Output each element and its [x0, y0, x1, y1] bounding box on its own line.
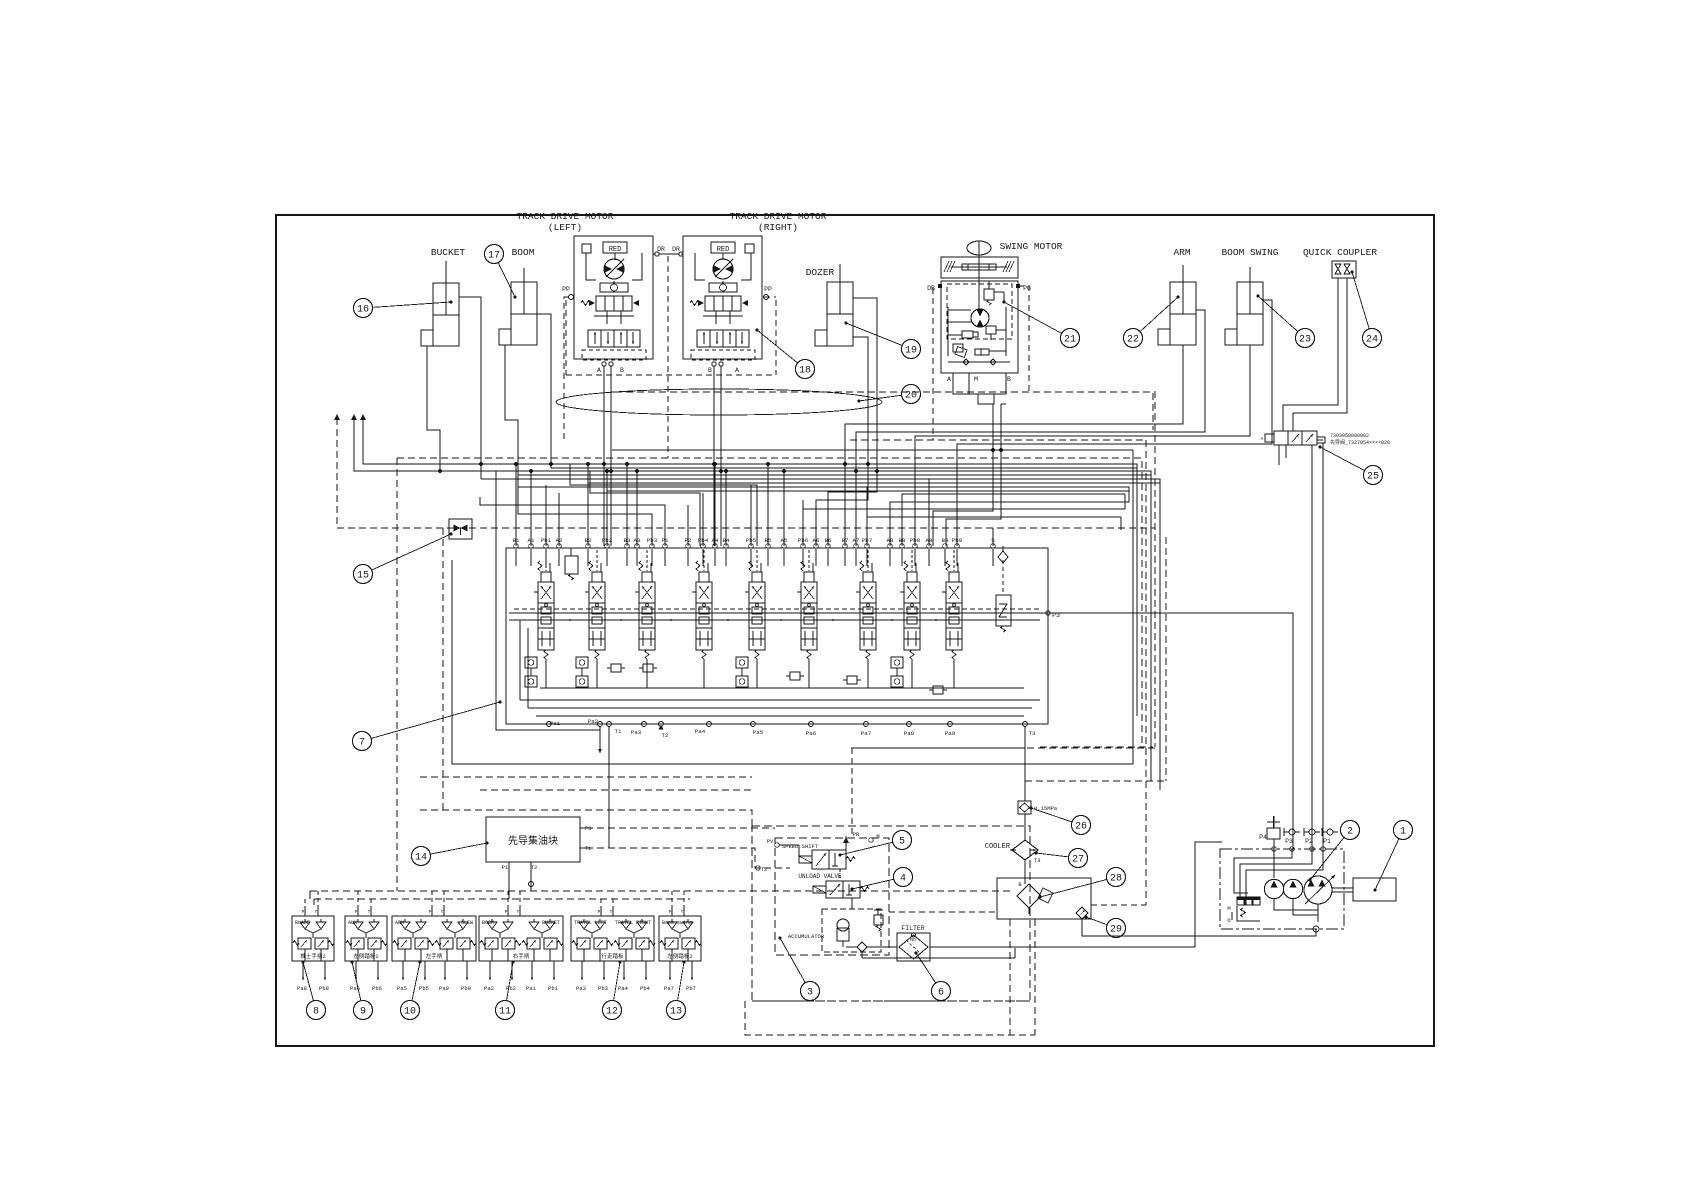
valve gallery 620	[509, 619, 1040, 621]
drawing border frame	[276, 215, 1434, 1046]
valve 25 part number	[1330, 433, 1390, 446]
pilot valve aux (9)	[345, 908, 387, 961]
pump 2 circle	[1283, 879, 1302, 898]
pump spring tank	[1227, 905, 1260, 924]
dashed box accumulator	[822, 909, 881, 952]
wire dashed right rect 1155	[1154, 391, 1156, 747]
svg-text:左侧踏板2: 左侧踏板2	[667, 952, 692, 960]
port A left motor	[597, 362, 613, 374]
balloon 8	[302, 961, 326, 1020]
cylinder BOOM SWING (23)	[1225, 267, 1263, 345]
svg-text:AUX: AUX	[348, 920, 357, 926]
balloon 17	[485, 245, 517, 299]
wire boom swing hose B	[957, 300, 1272, 546]
wire solid 748	[852, 747, 1025, 749]
cylinder BOOM (17)	[499, 268, 537, 345]
pump 1 circle	[1264, 879, 1283, 898]
wire valve left drain	[496, 471, 600, 730]
svg-text:P1: P1	[502, 864, 509, 871]
svg-text:Pa2: Pa2	[484, 985, 494, 992]
node M top	[869, 833, 880, 842]
wire DR link	[653, 253, 683, 255]
svg-text:17: 17	[488, 250, 500, 261]
balloon 15	[354, 533, 453, 584]
wire cooler down	[1024, 860, 1026, 878]
svg-text:(RIGHT): (RIGHT)	[758, 222, 798, 233]
wire pump nest 1	[1273, 849, 1275, 878]
svg-text:Pa1: Pa1	[550, 720, 561, 727]
wire quick coupler B	[1293, 278, 1347, 431]
wire bus twin right ends	[1121, 494, 1125, 530]
svg-text:T1: T1	[585, 845, 592, 852]
svg-text:ARM: ARM	[1173, 247, 1190, 258]
wire bus step 2	[590, 471, 700, 546]
svg-text:Pb7: Pb7	[686, 985, 696, 992]
wire dashed DB drop	[932, 288, 934, 440]
wire arm hose B	[856, 310, 1205, 546]
svg-text:PP: PP	[764, 286, 772, 293]
track drive motor left (18)	[574, 236, 653, 360]
svg-text:M: M	[1227, 905, 1230, 912]
svg-text:PG: PG	[1023, 285, 1031, 292]
wire bucket hose B	[459, 297, 481, 479]
wire main bus 1	[363, 418, 1137, 716]
main valve spools 1-9	[534, 561, 962, 659]
inter-spool check symbols	[607, 664, 947, 694]
svg-text:21: 21	[1064, 334, 1076, 345]
svg-text:RED: RED	[609, 246, 622, 254]
wire dashed PP left	[564, 297, 568, 440]
node T2 left	[756, 866, 768, 873]
wire dashed vertical left	[336, 418, 338, 528]
wire main bus 4	[481, 479, 1160, 790]
wire dozer hose B	[853, 298, 877, 448]
track drive motor right	[683, 236, 762, 360]
svg-text:15: 15	[357, 570, 369, 581]
svg-text:BUCKET: BUCKET	[431, 247, 466, 258]
label COOLER	[985, 843, 1011, 851]
svg-text:ARM: ARM	[395, 920, 404, 926]
svg-text:P: P	[598, 909, 601, 915]
svg-text:Pa7: Pa7	[664, 985, 674, 992]
label SPEED SHIFT	[782, 843, 819, 850]
wire bus step 3	[480, 497, 665, 546]
svg-text:SLEW: SLEW	[461, 920, 473, 926]
svg-text:左侧踏板2: 左侧踏板2	[353, 952, 378, 960]
balloon 21	[1003, 301, 1080, 348]
speed shift valve (5)	[799, 850, 855, 869]
wire dashed 747 right	[1040, 746, 1153, 748]
svg-text:19: 19	[905, 345, 917, 356]
svg-text:27: 27	[1072, 854, 1084, 865]
balloon 26	[1030, 807, 1091, 835]
wire dashed bottom box	[745, 1001, 1035, 1035]
svg-text:P3: P3	[585, 825, 592, 832]
svg-text:Pa5: Pa5	[753, 729, 764, 736]
wire dashed vertical 397	[396, 458, 398, 891]
svg-text:FILTER: FILTER	[901, 925, 925, 932]
wire bus twin 6	[867, 516, 1121, 518]
svg-text:PV: PV	[767, 838, 774, 845]
wire pump shaft	[1332, 888, 1353, 892]
ports P3 P2 P1 test points	[1284, 828, 1338, 845]
svg-text:Boom swing: Boom swing	[662, 920, 692, 926]
wire dashed long 810	[420, 810, 752, 826]
svg-text:P3: P3	[1285, 838, 1293, 845]
wire boom swing hose A	[915, 345, 1250, 546]
svg-text:4: 4	[900, 873, 906, 884]
svg-text:0.15MPa: 0.15MPa	[1034, 805, 1058, 812]
balloon 13	[667, 961, 686, 1020]
svg-text:TRAVEL LEFT: TRAVEL LEFT	[574, 920, 607, 926]
port B left motor	[620, 367, 624, 374]
svg-text:7303050000002: 7303050000002	[1330, 433, 1369, 439]
check valve 0.15MPa (26)	[1018, 801, 1058, 814]
svg-text:6: 6	[938, 987, 944, 998]
svg-text:T2: T2	[662, 732, 669, 739]
balloon 7	[353, 701, 502, 751]
svg-text:Pb6: Pb6	[372, 985, 382, 992]
balloon 24	[1351, 271, 1382, 348]
svg-text:T: T	[681, 909, 684, 915]
balloon 4	[851, 868, 913, 891]
pilot valve left handle (10)	[392, 908, 476, 961]
wire dashed 905 link	[1091, 904, 1146, 906]
wire right motor B	[713, 366, 715, 546]
svg-text:P: P	[429, 909, 432, 915]
wire arm hose A	[845, 345, 1183, 546]
tank arrow under Pa2	[598, 727, 602, 753]
svg-text:A: A	[947, 376, 951, 383]
wire 29 to pumps	[1082, 919, 1316, 936]
wire dashed under tank 1	[1009, 919, 1011, 1035]
wire pilot bus drops	[305, 891, 684, 908]
balloon 11	[496, 961, 515, 1020]
label BUCKET	[431, 247, 466, 258]
svg-text:T1: T1	[615, 728, 622, 735]
svg-text:24: 24	[1366, 334, 1378, 345]
wire swing B	[946, 404, 1001, 546]
svg-text:UNLOAD VALVE: UNLOAD VALVE	[798, 873, 842, 880]
pilot valve blade (8)	[292, 908, 334, 961]
wire pilot bus dashed 1	[310, 890, 1010, 892]
svg-text:22: 22	[1127, 334, 1139, 345]
solenoid valve quick coupler (25)	[1261, 431, 1325, 445]
balloon 19	[845, 322, 921, 359]
balloon 28	[1039, 868, 1126, 899]
wire dashed 912 link	[889, 911, 997, 913]
wire pilot bus dashed 2	[314, 898, 690, 900]
label BOOM	[512, 247, 535, 258]
wire P3 supply	[1049, 613, 1293, 849]
wire dashed 440 band	[850, 439, 1146, 441]
svg-text:Pa4: Pa4	[695, 728, 706, 735]
balloon 22	[1124, 296, 1180, 348]
svg-text:Pa8: Pa8	[297, 985, 307, 992]
wire bus twin 3	[588, 482, 1160, 484]
dashed box item 3 outer	[752, 826, 1030, 1001]
pump group dash-dot box	[1220, 849, 1344, 929]
svg-text:P: P	[505, 909, 508, 915]
svg-text:2: 2	[1347, 826, 1353, 837]
svg-text:P: P	[302, 909, 305, 915]
svg-text:Pa3: Pa3	[576, 985, 586, 992]
svg-text:(LEFT): (LEFT)	[548, 222, 582, 233]
manifold port T1	[580, 845, 592, 852]
balloon 16	[354, 299, 453, 318]
balloon 27	[1035, 849, 1088, 868]
port A right motor	[735, 367, 739, 374]
svg-text:PR: PR	[853, 831, 860, 838]
wire left motor A	[603, 366, 605, 546]
svg-text:16: 16	[357, 304, 369, 315]
wire dashed motor band	[566, 300, 776, 375]
wire S port stub	[992, 528, 994, 546]
svg-text:QUICK COUPLER: QUICK COUPLER	[1303, 247, 1377, 258]
svg-text:DR: DR	[672, 246, 680, 253]
svg-text:BOOM SWING: BOOM SWING	[1221, 247, 1278, 258]
main control valve outline	[506, 548, 1048, 724]
valve port inner stubs	[516, 549, 993, 566]
pilot manifold block (14)	[486, 817, 580, 862]
svg-text:TRACK DRIVE MOTOR: TRACK DRIVE MOTOR	[517, 211, 614, 222]
balloon 6	[915, 952, 951, 1001]
wire dashed pilot line mid	[337, 527, 1155, 529]
tank block (28)	[997, 878, 1091, 919]
label SWING MOTOR	[1000, 241, 1063, 252]
pilot valve right handle (11)	[479, 908, 563, 961]
svg-text:P: P	[355, 909, 358, 915]
valve inlet relief small	[565, 548, 578, 580]
svg-text:BOOM: BOOM	[482, 920, 494, 926]
svg-text:先导集油块: 先导集油块	[508, 834, 558, 848]
filter (6)	[897, 933, 930, 961]
accumulator symbol	[837, 919, 849, 947]
balloon 20	[858, 385, 921, 404]
svg-text:29: 29	[1110, 924, 1122, 935]
svg-text:1: 1	[1400, 826, 1406, 837]
valve collector 688	[540, 687, 1024, 689]
wire bus step 7	[902, 494, 1125, 546]
svg-text:先导阀_7327054××××020: 先导阀_7327054××××020	[1330, 439, 1390, 446]
svg-text:T: T	[517, 909, 520, 915]
wire bus twin 1	[551, 467, 1137, 469]
wire filter to pump suction	[930, 842, 1222, 947]
svg-text:B9: B9	[942, 537, 949, 544]
wire quick coupler A	[1283, 278, 1338, 431]
wire pump nest 2	[1234, 849, 1292, 893]
wire dashed DR drop	[667, 256, 669, 458]
svg-text:左手柄: 左手柄	[426, 952, 443, 960]
wire bus step 5	[816, 456, 868, 546]
wire dashed top band	[615, 392, 1153, 430]
balloon 12	[603, 961, 622, 1020]
main valve bottom ports Pa/T	[547, 718, 1036, 739]
pump pilot sensors	[1237, 897, 1260, 905]
node PV	[767, 838, 799, 856]
svg-text:23: 23	[1299, 334, 1311, 345]
wire bus step 6	[828, 448, 877, 546]
cylinder BUCKET (16)	[421, 261, 459, 346]
wire dashed valve under 748	[851, 747, 1155, 749]
label BOOM SWING	[1221, 247, 1278, 258]
wire bus step 1	[570, 464, 757, 546]
svg-text:Pa7: Pa7	[861, 730, 872, 737]
svg-text:5: 5	[899, 836, 905, 847]
ellipse slew bearing	[556, 389, 882, 415]
svg-text:ACCUMULATOR: ACCUMULATOR	[788, 933, 825, 940]
svg-text:Pa5: Pa5	[397, 985, 407, 992]
wire main bus 3	[612, 449, 1133, 451]
svg-text:PP: PP	[562, 286, 570, 293]
pump outlet junctions	[1272, 847, 1326, 852]
label TRACK DRIVE MOTOR (LEFT)	[517, 211, 614, 233]
main relief valve at S port	[996, 546, 1011, 632]
port B right motor	[708, 362, 723, 374]
gallery arrows	[564, 619, 938, 622]
wire return bottom	[862, 948, 1015, 958]
wire 25 down P2	[1311, 444, 1313, 446]
wire valve25 bottom stubs	[1279, 445, 1286, 465]
svg-text:M: M	[876, 833, 879, 840]
balloon 23	[1257, 295, 1315, 348]
wire pilot bus left risers	[310, 891, 314, 905]
junction dots bus	[438, 448, 1002, 472]
wire bucket hose A	[427, 346, 440, 471]
wire dashed under tank 2	[1034, 919, 1036, 1035]
main valve inner gallery P line	[509, 612, 1048, 614]
balloon 14	[412, 842, 489, 866]
pump 3 variable circle	[1304, 875, 1335, 904]
label DOZER	[806, 267, 835, 278]
cooler (27)	[1010, 840, 1041, 864]
svg-text:右手柄: 右手柄	[513, 952, 530, 960]
svg-text:Pb9: Pb9	[461, 985, 471, 992]
engine block (1)	[1353, 878, 1396, 901]
svg-text:T: T	[610, 909, 613, 915]
arrow pilot return left	[334, 414, 366, 420]
svg-text:8: 8	[313, 1006, 319, 1017]
balloon 9	[351, 961, 373, 1020]
svg-text:B: B	[708, 367, 712, 374]
wire pump nest 4	[1246, 849, 1323, 905]
svg-text:B: B	[620, 367, 624, 374]
wire left motor B	[610, 366, 612, 546]
svg-text:10: 10	[404, 1006, 416, 1017]
node PR	[843, 831, 860, 850]
svg-text:Pb2: Pb2	[506, 985, 516, 992]
wire boom hose B	[537, 314, 551, 468]
svg-text:SWING MOTOR: SWING MOTOR	[1000, 241, 1063, 252]
svg-text:BLADE: BLADE	[295, 920, 310, 926]
wire check to cooler	[1024, 814, 1026, 840]
svg-text:Pa2: Pa2	[588, 718, 599, 725]
cylinder DOZER (19)	[815, 264, 853, 346]
wire dashed 1146 vertical	[1145, 440, 1147, 905]
svg-text:28: 28	[1110, 873, 1122, 884]
check valve acc-filter	[846, 942, 897, 952]
pump case drain node	[1313, 926, 1319, 932]
check valve (29)	[1076, 907, 1088, 919]
label ACCUMULATOR	[788, 933, 825, 940]
label QUICK COUPLER	[1303, 247, 1377, 258]
svg-text:13: 13	[670, 1006, 682, 1017]
svg-text:T: T	[441, 909, 444, 915]
svg-text:RED: RED	[717, 246, 730, 254]
svg-text:7: 7	[359, 737, 365, 748]
wire pump nest 3	[1240, 849, 1312, 899]
wire boom hose A	[505, 345, 518, 497]
svg-text:DOZER: DOZER	[806, 267, 835, 278]
wire dashed PG drop	[1018, 286, 1029, 391]
wire P4 supply	[1273, 816, 1275, 849]
port P3 right	[1046, 611, 1060, 619]
balloon 3	[779, 937, 820, 1001]
svg-text:A: A	[735, 367, 739, 374]
svg-text:Pb8: Pb8	[319, 985, 329, 992]
svg-text:Pa9: Pa9	[439, 985, 449, 992]
svg-text:COOLER: COOLER	[985, 843, 1011, 851]
label TRACK DRIVE MOTOR (RIGHT)	[730, 211, 827, 233]
node DR (left)	[655, 246, 665, 256]
svg-text:T: T	[315, 909, 318, 915]
shuttle valve (15)	[449, 519, 472, 539]
svg-text:Pb4: Pb4	[640, 985, 651, 992]
svg-text:行走踏板: 行走踏板	[601, 952, 624, 960]
port P4	[1259, 816, 1280, 841]
svg-text:推土手柄2: 推土手柄2	[300, 952, 325, 960]
svg-text:T3: T3	[1029, 730, 1036, 737]
label UNLOAD VALVE	[798, 873, 842, 880]
spool pilot stubs	[546, 550, 954, 688]
wire T3 to check	[1024, 726, 1026, 801]
pilot outputs Pa/Pb arrows+labels	[297, 961, 696, 992]
wire P1 supply	[1317, 440, 1323, 849]
wire dashed vertical 443	[442, 528, 444, 810]
svg-text:T2: T2	[531, 864, 538, 871]
wire drops to valve ports	[516, 464, 929, 546]
wire dozer hose A	[853, 337, 868, 456]
wire right motor A	[720, 366, 722, 546]
T2 tick	[659, 725, 664, 730]
dashed box item 3 inner	[775, 838, 889, 955]
svg-text:11: 11	[499, 1006, 511, 1017]
wire dashed right rect 1166	[1165, 537, 1167, 781]
manifold port P bottom	[502, 862, 509, 871]
svg-text:T: T	[368, 909, 371, 915]
label FILTER	[901, 925, 925, 932]
main valve inner bottom lines	[520, 620, 1040, 716]
svg-text:SPEED SHIFT: SPEED SHIFT	[782, 843, 819, 850]
svg-text:TRACK DRIVE MOTOR: TRACK DRIVE MOTOR	[730, 211, 827, 222]
wire return loop left	[452, 450, 1133, 764]
wire speed-unload link	[840, 869, 852, 909]
svg-text:Pa1: Pa1	[526, 985, 537, 992]
svg-text:TRAVEL RIGHT: TRAVEL RIGHT	[615, 920, 651, 926]
wire T1 drop to manifold	[608, 726, 610, 848]
svg-text:A: A	[597, 367, 601, 374]
svg-text:BUCKET: BUCKET	[542, 920, 560, 926]
pilot valve travel (12)	[571, 908, 655, 961]
svg-text:B: B	[1007, 376, 1011, 383]
wire main bus 5	[518, 487, 1129, 546]
manifold port T2 bottom	[531, 862, 538, 871]
svg-text:18: 18	[799, 365, 811, 376]
wire dashed bus top	[397, 458, 1142, 747]
balloon 10	[401, 961, 422, 1020]
svg-text:Pa3: Pa3	[631, 729, 642, 736]
manifold port P3	[580, 825, 591, 832]
